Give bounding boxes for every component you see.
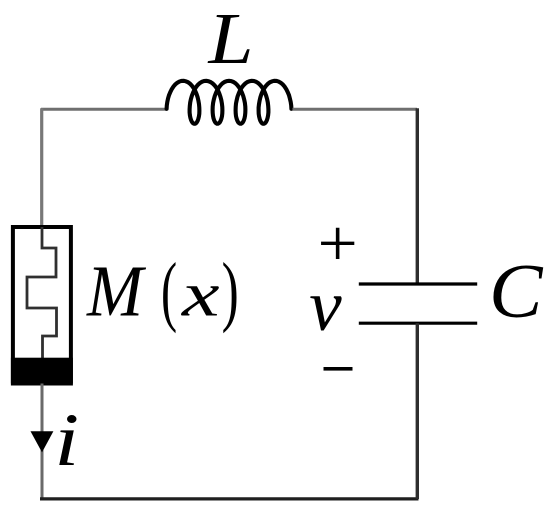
wire memristor-to-bottom vertical segment	[41, 384, 44, 500]
current arrow i	[31, 431, 54, 452]
capacitor C top plate	[359, 282, 477, 285]
wire top-right horizontal segment	[293, 108, 418, 111]
wire bottom horizontal segment	[40, 497, 419, 500]
memristor meander	[27, 227, 57, 358]
inductor L coil	[167, 81, 292, 124]
label minus capacitor polarity	[324, 367, 353, 371]
svg-text:M: M	[86, 251, 147, 332]
wire left vertical segment	[40, 108, 43, 228]
svg-text:C: C	[489, 248, 544, 334]
wire top-left horizontal segment	[41, 108, 167, 111]
svg-text:L: L	[207, 0, 253, 79]
svg-text:x: x	[181, 259, 220, 330]
svg-text:v: v	[309, 265, 342, 346]
svg-text:): )	[222, 248, 239, 334]
capacitor C bottom plate	[359, 322, 477, 325]
svg-text:(: (	[161, 248, 177, 335]
memristor M(x) box	[13, 227, 71, 384]
svg-text:i: i	[54, 399, 79, 482]
wire right vertical upper segment	[416, 108, 419, 284]
memristor bottom electrode bar	[11, 358, 73, 384]
wire right vertical lower segment	[416, 323, 419, 499]
